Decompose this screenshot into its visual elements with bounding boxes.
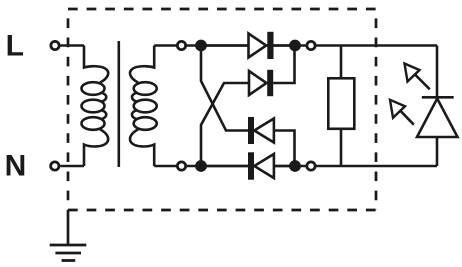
wire node A vertical and diagonal to diode D3 [201,46,249,131]
ground [67,210,70,245]
diode D4 [207,165,249,168]
transformer T1 primary winding [84,46,108,83]
transformer T1 secondary winding [130,46,154,83]
terminal L [51,41,59,49]
diode D1 [249,34,267,58]
terminal secondary bottom [177,162,185,170]
svg-text:N: N [5,149,27,182]
terminal N [51,162,59,170]
svg-text:L: L [6,30,24,63]
junction dot node C (top right of bridge) [289,40,301,52]
terminal bridge out top [307,41,315,49]
LED arrow 2 [399,109,414,124]
wire N terminal to transformer primary [60,165,84,168]
terminal secondary top [177,41,185,49]
terminal bridge out bottom [307,162,315,170]
junction dot node B (bottom left of bridge) [195,160,207,172]
wire diode D2 diagonal to node B [201,83,249,166]
junction dot node A (top left of bridge) [195,40,207,52]
transformer core [118,41,121,167]
diode D2 [249,71,267,95]
wire L terminal to transformer primary [61,44,85,47]
resistor R1 [340,46,343,80]
enclosure dashed box [68,8,376,11]
diode D3 [248,117,254,144]
LED arrow 1 [414,73,430,89]
wire secondary bottom to bridge (bottom rail) [154,165,437,168]
LED D5 [436,46,439,98]
wire secondary top to bridge (top rail) [154,44,437,47]
junction dot node D (bottom right of bridge) [289,160,301,172]
